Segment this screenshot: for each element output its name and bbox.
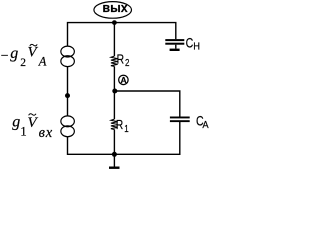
svg-text:2: 2 (125, 57, 129, 68)
svg-text:A: A (38, 55, 47, 69)
tilde upper (30, 44, 37, 46)
resistor R2 (111, 56, 118, 66)
svg-text:R: R (117, 51, 125, 67)
svg-text:g: g (12, 113, 20, 130)
wire ground stub bottom (113, 154, 115, 166)
capacitor CA bottom plate (170, 120, 190, 122)
ground bar CH (170, 49, 180, 51)
junction dot bottom (112, 152, 117, 157)
svg-text:Н: Н (193, 41, 200, 53)
current source upper (g2) bottom ellipse (61, 56, 75, 67)
current source upper (g2) top ellipse (61, 46, 75, 57)
wire node A horizontal to CA (114, 91, 179, 117)
wire CH to ground stub (175, 45, 177, 49)
wire middle-bottom vertical (113, 130, 115, 155)
capacitor CH top plate (165, 39, 184, 41)
svg-text:2: 2 (20, 57, 26, 69)
svg-text:А: А (202, 119, 209, 131)
resistor R1 (111, 119, 118, 129)
svg-text:−: − (1, 49, 9, 64)
wire middle-top vertical (113, 23, 115, 57)
junction dot node A (112, 89, 117, 94)
svg-text:A: A (121, 75, 127, 85)
svg-text:R: R (116, 117, 124, 133)
capacitor CH bottom plate (165, 43, 184, 45)
svg-text:C: C (186, 35, 194, 51)
wire middle vertical R2 to R1 (113, 66, 115, 119)
current source lower (g1) top ellipse (61, 116, 75, 127)
capacitor CA top plate (170, 117, 190, 119)
node A circle (119, 75, 128, 84)
ground bar bottom (109, 167, 120, 169)
current source lower (g1) bottom ellipse (61, 126, 75, 137)
svg-text:g: g (10, 45, 18, 62)
wire bottom horizontal with corners (68, 122, 180, 154)
svg-text:вых: вых (102, 1, 127, 15)
junction dot left branch (65, 93, 70, 98)
svg-text:1: 1 (20, 124, 27, 139)
wire top horizontal with corners (68, 23, 176, 47)
junction dot top (112, 20, 117, 25)
svg-text:1: 1 (124, 123, 128, 134)
oval output label (94, 2, 132, 19)
tilde lower (29, 114, 36, 116)
wire left-middle vertical (67, 67, 69, 116)
svg-text:вх: вх (39, 125, 54, 141)
